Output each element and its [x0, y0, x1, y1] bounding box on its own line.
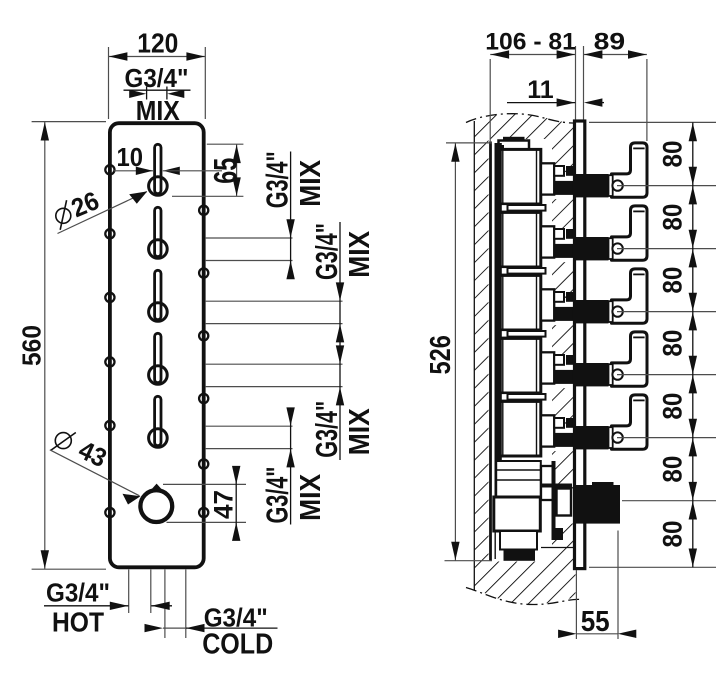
handle 1 stem — [575, 174, 609, 197]
handle 5 lever — [612, 395, 648, 449]
dim 120 top width — [109, 28, 206, 120]
handle 3 lever — [612, 269, 648, 323]
label diameter 26 — [56, 185, 147, 233]
handle 4 lever — [612, 332, 648, 386]
cartridge 4 wall port — [554, 370, 576, 384]
body cutout in wall — [489, 139, 553, 562]
callout G3/4 MIX cartridge 2 — [260, 151, 327, 279]
control cutout 5: lever slot — [155, 396, 161, 445]
svg-text:HOT: HOT — [52, 607, 104, 638]
cartridge 3 wall port — [554, 307, 576, 321]
cartridge 1 outlet block — [541, 163, 554, 194]
wall break line bottom — [466, 588, 581, 605]
mounting plate side — [575, 121, 585, 569]
svg-text:MIX: MIX — [295, 473, 327, 521]
handle 2 lever — [612, 206, 648, 260]
handle 4 stem — [575, 363, 609, 386]
cartridge 1 wall port — [554, 181, 576, 195]
control cutout 2: hub circle — [149, 240, 168, 259]
cartridge 5 outlet block — [541, 415, 554, 446]
svg-text:G3/4": G3/4" — [309, 223, 344, 280]
svg-text:80: 80 — [658, 330, 688, 357]
left fixing holes — [105, 165, 114, 517]
dim 10 slot width — [114, 142, 222, 175]
svg-text:47: 47 — [209, 490, 239, 519]
handle 5 stem — [575, 426, 609, 449]
svg-text:MIX: MIX — [344, 230, 376, 278]
svg-text:526: 526 — [425, 335, 457, 374]
handle 2 collar — [609, 238, 613, 259]
bottom unit body — [494, 461, 554, 561]
handle 3 collar — [609, 301, 613, 322]
svg-text:120: 120 — [137, 28, 178, 59]
svg-text:MIX: MIX — [295, 159, 327, 207]
svg-text:G3/4": G3/4" — [309, 401, 344, 458]
svg-text:106 - 81: 106 - 81 — [485, 29, 576, 56]
svg-text:65: 65 — [207, 158, 243, 184]
handle 2 stem — [575, 237, 609, 260]
outlet leader lines cartridge 3 — [206, 301, 343, 323]
thermostat knob side — [552, 461, 556, 540]
cartridge 1 body — [496, 149, 576, 204]
cartridge 4 outlet block — [541, 352, 554, 383]
cartridge 2 outlet block — [541, 226, 554, 257]
svg-text:80: 80 — [658, 521, 688, 548]
wall break line top — [466, 114, 580, 123]
cartridge 5 body — [496, 393, 576, 456]
dim 11 plate thickness — [507, 76, 604, 107]
handle 1 lever — [612, 143, 648, 197]
svg-text:560: 560 — [16, 325, 46, 366]
control cutout 5: hub circle — [149, 429, 168, 448]
cartridge 3 outlet block — [541, 289, 554, 320]
svg-text:G3/4": G3/4" — [46, 578, 110, 608]
svg-text:80: 80 — [658, 141, 688, 168]
outlet leader lines cartridge 4 — [206, 364, 343, 386]
dim 80 column — [589, 122, 716, 567]
dim 526 body height — [425, 143, 492, 561]
callout G3/4 MIX cartridge 5 — [260, 407, 327, 524]
svg-text:COLD: COLD — [202, 629, 273, 661]
svg-text:G3/4": G3/4" — [125, 63, 189, 93]
valve body flange column — [495, 143, 502, 497]
svg-text:80: 80 — [658, 393, 688, 420]
svg-text:G3/4": G3/4" — [260, 151, 295, 208]
cartridge 3 body — [496, 267, 576, 330]
dim 47 knob offset — [163, 466, 246, 541]
dim 106-81 and 89 — [485, 29, 647, 142]
callout G3/4 MIX cartridge 3 — [309, 222, 376, 460]
cartridge 2 wall port — [554, 244, 576, 258]
wall left edge — [473, 121, 475, 591]
control cutout 1: lever slot — [155, 144, 161, 193]
knob index tab — [150, 484, 163, 491]
callout G3/4 MIX cartridge 4 — [309, 345, 376, 457]
svg-text:80: 80 — [658, 456, 688, 483]
valve body spine — [489, 142, 492, 561]
svg-text:MIX: MIX — [344, 408, 376, 456]
outlet leader lines cartridge 2 — [206, 238, 293, 261]
label G3/4 COLD — [145, 603, 278, 661]
cartridge 4 body — [496, 330, 576, 393]
cartridge 5 wall port — [554, 433, 576, 447]
control cutout 4: hub circle — [149, 366, 168, 385]
svg-text:MIX: MIX — [136, 95, 181, 126]
control cutout 2: lever slot — [155, 207, 161, 256]
label diameter 43 — [50, 433, 141, 505]
control cutout 3: lever slot — [155, 270, 161, 319]
dim 55 knob offset — [558, 531, 636, 640]
svg-text:89: 89 — [594, 29, 626, 56]
label G3/4 MIX top inlet — [124, 63, 191, 126]
cartridge 2 body — [496, 204, 576, 267]
control cutout 4: lever slot — [155, 333, 161, 382]
handle 1 collar — [609, 175, 613, 196]
right fixing holes — [199, 206, 208, 517]
dim 65 cutout length — [172, 144, 243, 196]
thermostat knob circle d43 — [140, 490, 172, 522]
hot/cold port extension lines — [129, 570, 186, 639]
valve body top cap — [499, 141, 530, 151]
handle 4 collar — [609, 364, 613, 385]
mixer plate outline — [110, 123, 204, 567]
wall section hatch — [474, 114, 575, 605]
svg-text:55: 55 — [581, 606, 610, 638]
handle 5 collar — [609, 427, 613, 448]
control cutout 1: hub circle — [149, 177, 168, 196]
label G3/4 HOT — [44, 578, 172, 638]
control cutout 3: hub circle — [149, 303, 168, 322]
dim 560 plate height — [16, 122, 106, 570]
svg-text:80: 80 — [658, 204, 688, 231]
svg-text:11: 11 — [527, 76, 554, 104]
svg-text:G3/4": G3/4" — [260, 467, 295, 524]
svg-text:80: 80 — [658, 267, 688, 294]
outlet leader lines cartridge 5 — [206, 426, 293, 448]
handle 3 stem — [575, 300, 609, 323]
